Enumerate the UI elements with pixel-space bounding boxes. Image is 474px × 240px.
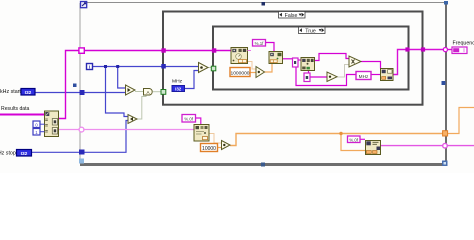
- divide2 triangle: [222, 141, 231, 150]
- wire cluster to icon1 (magenta): [59, 51, 231, 119]
- wire icon2 to b const (magenta): [283, 58, 293, 60]
- case structure True border: [213, 27, 409, 90]
- wire divide1 to icon2 (orange): [265, 64, 273, 73]
- cluster index icon: [45, 111, 59, 137]
- svg-text:I32: I32: [21, 151, 28, 157]
- selector label False: [279, 12, 306, 19]
- iconB fract string to number: [194, 125, 209, 142]
- selector terminal False case (green): [161, 90, 166, 95]
- tunnel MHz stop (blue solid): [79, 150, 85, 155]
- terminal MHz indicator I32: [172, 86, 185, 92]
- wire triangle to multiply (pale gray): [337, 65, 349, 78]
- junction dot orange: [339, 132, 342, 135]
- selection handle bottom-right: [442, 161, 448, 167]
- wire compare to True selector (boolean pale): [208, 67, 212, 69]
- wire string remainder down (magenta): [296, 67, 356, 86]
- tunnel magenta solid on True right border: [405, 47, 409, 51]
- wire divide output long run (orange): [230, 134, 443, 146]
- divide1 triangle: [256, 67, 265, 78]
- wire Frequency outside (magenta): [448, 49, 452, 51]
- svg-text:1 kHz start: 1 kHz start: [0, 89, 21, 95]
- tunnel pink hollow circle bottom right: [443, 143, 448, 148]
- svg-text:10000: 10000: [202, 146, 216, 152]
- label Results data: [0, 106, 30, 112]
- selector terminal True case (green): [211, 66, 216, 71]
- selection handle top-middle: [262, 2, 266, 6]
- wire Results data (magenta thick): [0, 114, 45, 116]
- wire kHz start (blue): [35, 92, 126, 94]
- svg-text:False: False: [285, 13, 298, 19]
- label MHz: [172, 79, 183, 85]
- svg-text:MHz: MHz: [359, 74, 369, 79]
- wire riser i to compare2 (blue): [106, 67, 129, 117]
- tunnel magenta solid on False right border: [421, 47, 425, 51]
- wire compare2 to AND (boolean pale): [137, 95, 146, 119]
- delta constant: [304, 73, 310, 82]
- constant 10000: [201, 144, 218, 153]
- wire %.0f to icon5 (magenta): [360, 138, 365, 140]
- iteration terminal i: [87, 64, 93, 71]
- wire 10000 to divide (orange): [218, 147, 222, 149]
- compare3 triangle (equal): [199, 63, 209, 73]
- label Frequency: [453, 40, 474, 46]
- format string constant %.1f: [253, 40, 266, 47]
- tunnel i wire on False border (blue solid): [161, 64, 166, 69]
- wire AND to False selector (boolean pale): [153, 91, 162, 93]
- label MHz stop: [0, 151, 16, 157]
- format constant %.0f left: [182, 115, 196, 123]
- selection handle right-middle: [442, 81, 446, 85]
- format constant %.0f right: [348, 136, 361, 143]
- wire icon3 to multiply (magenta): [315, 54, 350, 61]
- terminal kHz start I32: [21, 89, 35, 97]
- blue constant 1 lower: [33, 129, 45, 136]
- wire orange branch to icon5: [341, 134, 365, 151]
- wire orange exit outside loop: [448, 108, 474, 134]
- svg-text:%.0f: %.0f: [184, 117, 194, 122]
- wire MHz const to icon4 (magenta): [371, 74, 381, 76]
- selection handle top-right: [444, 1, 448, 5]
- while loop selection handle top-left icon: [81, 2, 87, 8]
- wire delta const to triangle (magenta): [310, 76, 327, 78]
- tunnel magenta solid on False border: [161, 48, 165, 52]
- compare2 triangle: [128, 115, 137, 124]
- wire b const to icon3 (magenta): [298, 59, 301, 61]
- wire icon3 bottom stub (magenta): [308, 70, 310, 73]
- svg-text:1000000: 1000000: [230, 70, 249, 76]
- wire compare1 to AND (boolean pale): [135, 91, 144, 93]
- wire format %.0f drop left (magenta): [196, 118, 201, 125]
- svg-text:%.1f: %.1f: [255, 41, 265, 46]
- wire icon5 output to right edge (pink): [381, 145, 474, 147]
- tunnel magenta solid on True border: [212, 48, 216, 52]
- wire string into loop bottom (pale pink): [59, 129, 194, 131]
- indicator Frequency string: [452, 47, 467, 54]
- convert triangle small: [327, 72, 337, 82]
- svg-text:Frequency: Frequency: [453, 40, 474, 46]
- wire format %.1f drop (magenta): [265, 43, 274, 52]
- wire 1000000 to divide1 (orange): [250, 72, 256, 74]
- tunnel orange square on loop right: [443, 131, 448, 136]
- blue constant 0 upper: [33, 121, 45, 128]
- case structure False border: [163, 12, 423, 105]
- wire iteration i (blue): [93, 66, 199, 68]
- terminal MHz stop I32: [17, 150, 32, 158]
- tunnel Frequency hollow circle on loop right: [443, 48, 447, 52]
- wire multiply to icon4 (magenta): [361, 62, 381, 69]
- multiply triangle: [349, 56, 361, 67]
- junction dot i wire 2: [116, 65, 119, 68]
- svg-text:i: i: [89, 65, 90, 71]
- string constant b: [293, 58, 299, 67]
- while loop border: [80, 2, 448, 166]
- selection handle left-middle: [73, 84, 77, 88]
- icon1 scan from string: [231, 48, 251, 64]
- svg-text:I32: I32: [175, 87, 182, 92]
- tunnel pink hollow circle loop left bottom: [79, 127, 84, 132]
- svg-text:MHz stop: MHz stop: [0, 151, 16, 157]
- label kHz start: [0, 89, 21, 95]
- wire MHz terminal riser (blue): [185, 71, 199, 89]
- wire iconB to divide (pale orange): [209, 134, 222, 144]
- wire MHz stop (blue): [32, 121, 129, 153]
- svg-text:%.0f: %.0f: [349, 137, 359, 142]
- selector label True: [299, 27, 326, 34]
- selection handle bottom-left: [79, 159, 84, 164]
- wire riser i to compare1 (blue): [118, 67, 126, 89]
- junction dot i wire 1: [104, 65, 107, 68]
- constant 1000000: [230, 68, 250, 77]
- selection handle bottom-middle: [261, 163, 265, 167]
- svg-text:True: True: [305, 28, 316, 34]
- tunnel kHz start (blue solid): [80, 90, 85, 95]
- MHz string constant: [356, 72, 371, 80]
- wire icon4 to Frequency out (magenta): [393, 50, 443, 75]
- compare1 triangle: [126, 85, 136, 95]
- svg-text:I32: I32: [25, 90, 32, 96]
- icon2 scan from string 2: [269, 52, 283, 64]
- icon3 match pattern: [301, 58, 315, 71]
- wire icon1 to divide1 (orange): [248, 62, 257, 70]
- icon5 format into string: [366, 141, 381, 155]
- tunnel magenta hollow on loop left: [79, 48, 84, 53]
- AND node: [144, 89, 153, 96]
- svg-text:l Results data: l Results data: [0, 106, 30, 112]
- icon4 concatenate: [381, 69, 394, 81]
- svg-text:MHz: MHz: [172, 79, 183, 85]
